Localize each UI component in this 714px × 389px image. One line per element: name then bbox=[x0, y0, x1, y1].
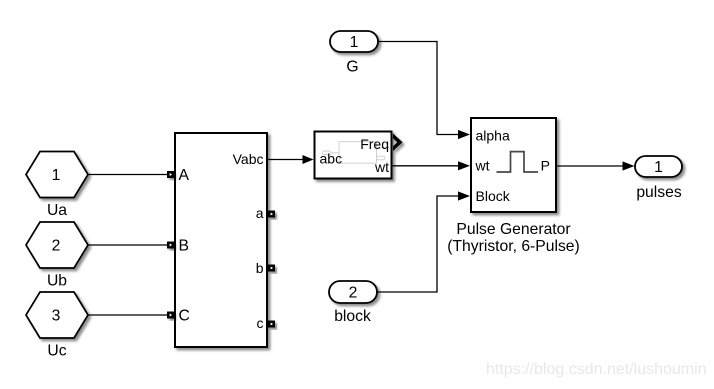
preview wire bbox=[331, 152, 339, 154]
wire Ub to B bbox=[88, 244, 167, 246]
svg-text:wt: wt bbox=[475, 158, 490, 174]
wire Vabc to abc block bbox=[267, 155, 314, 164]
inport oval block (input 2) bbox=[329, 281, 377, 303]
svg-text:C: C bbox=[179, 308, 190, 325]
label Pulse Generator bbox=[447, 221, 580, 255]
svg-text:Vabc: Vabc bbox=[233, 151, 264, 167]
svg-text:2: 2 bbox=[349, 285, 358, 302]
port marker a bbox=[268, 211, 275, 218]
svg-text:G: G bbox=[346, 59, 358, 76]
svg-text:Ua: Ua bbox=[47, 202, 67, 219]
outport oval pulses (output 1) bbox=[635, 156, 682, 177]
wire Uc to C bbox=[88, 314, 167, 316]
svg-text:2: 2 bbox=[52, 238, 61, 255]
svg-text:1: 1 bbox=[654, 159, 663, 176]
preview rect bbox=[339, 142, 377, 163]
svg-text:(Thyristor, 6-Pulse): (Thyristor, 6-Pulse) bbox=[447, 238, 580, 255]
svg-text:alpha: alpha bbox=[476, 128, 510, 144]
port marker c bbox=[268, 321, 275, 328]
pulse waveform icon bbox=[497, 152, 539, 172]
svg-text:a: a bbox=[256, 205, 264, 221]
wire P to pulses bbox=[556, 161, 635, 170]
inport hexagon 2 (Ub) bbox=[26, 222, 88, 268]
svg-text:abc: abc bbox=[320, 151, 343, 167]
subsystem block U1 (3-phase measurement) bbox=[175, 133, 267, 347]
inport hexagon 3 (Uc) bbox=[26, 292, 88, 338]
svg-text:wt: wt bbox=[374, 159, 389, 175]
svg-text:Uc: Uc bbox=[47, 343, 66, 360]
preview wire to Freq bbox=[377, 147, 390, 149]
svg-text:https://blog.csdn.net/lushoumi: https://blog.csdn.net/lushoumin bbox=[486, 361, 707, 378]
svg-text:B: B bbox=[179, 238, 189, 255]
wire block to Block bbox=[377, 191, 470, 292]
pulse generator block U3 bbox=[471, 118, 556, 212]
wire wt to pulse generator bbox=[392, 161, 470, 170]
port marker B bbox=[167, 242, 174, 249]
svg-text:block: block bbox=[334, 308, 371, 325]
svg-text:A: A bbox=[179, 167, 190, 184]
wire Ua to A bbox=[88, 174, 167, 176]
svg-text:pulses: pulses bbox=[636, 184, 682, 201]
port marker A bbox=[167, 171, 174, 178]
svg-text:Ub: Ub bbox=[47, 273, 67, 290]
svg-text:3: 3 bbox=[52, 308, 61, 325]
unconnected port chevron Freq bbox=[393, 134, 403, 152]
preview pill right bbox=[377, 156, 386, 160]
port marker b bbox=[268, 265, 275, 272]
outport oval G (input 1) bbox=[330, 31, 378, 52]
svg-text:Freq: Freq bbox=[360, 136, 389, 152]
svg-text:b: b bbox=[256, 260, 264, 276]
svg-text:1: 1 bbox=[52, 167, 61, 184]
svg-text:Block: Block bbox=[476, 188, 511, 204]
svg-text:Pulse Generator: Pulse Generator bbox=[456, 221, 570, 238]
PLL subsystem block U2 (abc/Freq/wt) bbox=[315, 132, 392, 179]
svg-text:c: c bbox=[257, 315, 264, 331]
wire G to alpha bbox=[378, 42, 470, 140]
preview pill left bbox=[323, 151, 332, 155]
svg-text:P: P bbox=[541, 158, 550, 174]
port marker C bbox=[167, 312, 174, 319]
inport hexagon 1 (Ua) bbox=[26, 152, 88, 198]
svg-text:1: 1 bbox=[350, 34, 359, 51]
